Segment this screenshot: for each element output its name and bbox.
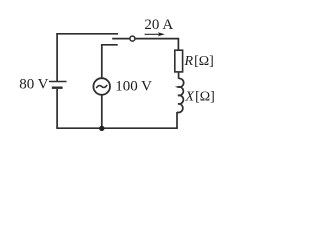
wire left vertical lower (battery - to bottom) bbox=[56, 89, 58, 128]
wire bottom horizontal bbox=[56, 127, 178, 129]
wire top-right horizontal (switch to resistor corner) bbox=[135, 38, 178, 40]
battery E 80V long plate bbox=[49, 81, 67, 83]
svg-text:R[Ω]: R[Ω] bbox=[184, 54, 214, 69]
wire right vertical (corner to resistor) bbox=[177, 38, 179, 50]
wire AC branch top horizontal bbox=[101, 44, 118, 46]
AC source sine symbol bbox=[97, 86, 107, 88]
wire top-left horizontal (battery to switch contact) bbox=[56, 33, 118, 35]
wire coil to bottom corner bbox=[176, 112, 178, 128]
switch blade wire bbox=[112, 38, 129, 40]
AC source circle 100V bbox=[93, 78, 110, 95]
svg-text:80 V: 80 V bbox=[19, 77, 48, 93]
wire resistor to coil bbox=[178, 72, 180, 79]
wire AC branch vertical upper bbox=[101, 44, 103, 78]
resistor R box bbox=[175, 50, 183, 72]
battery E 80V short plate bbox=[52, 86, 63, 88]
current arrow bbox=[145, 33, 160, 35]
svg-text:20 A: 20 A bbox=[144, 17, 173, 33]
wire AC branch vertical lower bbox=[101, 95, 103, 128]
junction node dot bbox=[99, 126, 104, 131]
svg-text:100 V: 100 V bbox=[115, 78, 152, 94]
inductor X coil bbox=[177, 78, 184, 112]
svg-text:X[Ω]: X[Ω] bbox=[185, 89, 215, 104]
wire left vertical upper (top corner to battery +) bbox=[56, 33, 58, 81]
switch terminal circle bbox=[130, 36, 135, 41]
